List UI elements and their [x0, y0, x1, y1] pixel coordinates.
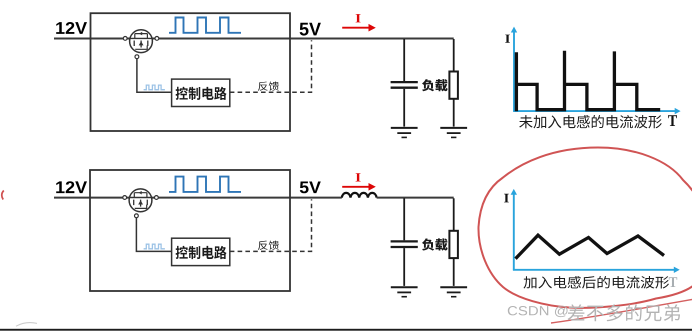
mosfet Q2 — [123, 189, 159, 218]
node 12V label (top) — [56, 22, 87, 34]
wire: Q1 gate to control circuit (top) — [137, 58, 172, 92]
feedback dashed line (top) — [230, 40, 312, 92]
red arc fragment at left image edge — [2, 191, 4, 200]
capacitor C1 — [391, 39, 418, 127]
load resistor R2 — [449, 198, 458, 286]
red highlight loop around bottom graph — [478, 148, 692, 308]
control circuit block U1 (top) with label 控制电路 — [172, 79, 230, 106]
ground at C2 — [391, 287, 418, 297]
feedback label 反馈 (bottom) — [258, 241, 279, 250]
graph axes (bottom, blue) : I vs T — [511, 189, 680, 273]
load label 负载 (bottom) — [422, 238, 448, 250]
enclosure box (top converter) — [91, 13, 291, 131]
axis label I (bottom graph) — [504, 194, 509, 203]
feedback dashed line (bottom) — [230, 199, 312, 251]
control drive small waveform (bottom, light blue) — [144, 244, 165, 249]
caption 未加入电感的电流波形 (top graph) — [519, 115, 662, 128]
wire: Q2 gate to control circuit (bottom) — [136, 217, 171, 251]
node 5V label (bottom) — [300, 181, 321, 193]
gate PWM waveform (top, blue) — [169, 18, 241, 33]
control drive small waveform (top, light blue) — [144, 85, 165, 90]
current arrow I (bottom, red) — [342, 173, 376, 190]
wire: 12V input rail to output node (top) — [54, 38, 454, 40]
axis label I (top graph) — [505, 35, 510, 43]
watermark 差不多的兄弟 — [568, 304, 680, 321]
enclosure box (bottom converter) — [90, 170, 290, 291]
ground at R2 — [440, 287, 467, 297]
gate PWM waveform (bottom, blue) — [169, 177, 241, 192]
faint pen smudge bottom-left — [16, 323, 37, 327]
axis label T (top graph) — [668, 115, 677, 126]
node 12V label (bottom) — [56, 181, 87, 193]
square current waveform (top graph, black) — [516, 51, 660, 111]
caption 加入电感后的电流波形 (bottom graph) — [523, 276, 669, 289]
bottom separator line — [0, 329, 692, 331]
node 5V label (top) — [300, 23, 321, 36]
wire: inductor to output node (bottom) — [377, 197, 454, 199]
watermark CSDN — [508, 306, 568, 317]
red loop tail through watermark — [551, 300, 692, 324]
ground at R1 — [440, 128, 467, 137]
wire: 12V input rail to inductor (bottom) — [54, 197, 342, 199]
ground at C1 — [391, 128, 418, 137]
mosfet Q1 — [123, 30, 159, 59]
control circuit block U2 (bottom) with label 控制电路 — [172, 238, 230, 265]
load resistor R1 — [449, 39, 458, 127]
triangular current waveform (bottom graph, black) — [516, 235, 665, 259]
feedback label 反馈 (top) — [258, 81, 279, 90]
inductor L1 — [342, 193, 377, 198]
axis label T (bottom graph) — [669, 277, 677, 287]
graph axes (top, blue) : I vs T — [511, 27, 681, 115]
load label 负载 (top) — [422, 79, 448, 91]
capacitor C2 — [391, 198, 418, 286]
current arrow I (top, red) — [342, 14, 376, 31]
